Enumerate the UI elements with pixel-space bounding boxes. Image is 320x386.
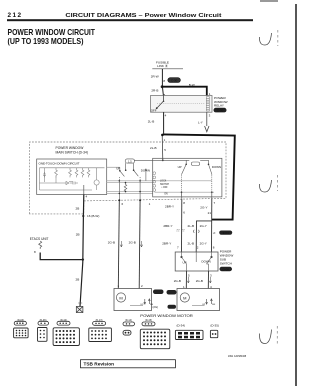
svg-text:2B: 2B [76,207,80,211]
svg-text:5: 5 [188,274,190,278]
svg-text:8: 8 [34,250,36,254]
svg-text:8: 8 [213,245,215,249]
svg-text:2: 2 [141,284,143,288]
svg-text:8: 8 [163,79,165,83]
svg-text:2G-B: 2G-B [196,279,203,283]
svg-text:7: 7 [214,201,216,205]
svg-text:RELAY: RELAY [214,104,224,108]
svg-text:1: 1 [164,138,166,142]
svg-text:(D-14): (D-14) [125,319,132,322]
svg-text:16 (B-W): 16 (B-W) [87,214,99,218]
svg-text:2R-B: 2R-B [151,88,158,92]
svg-text:2G-Y: 2G-Y [200,205,207,209]
svg-text:UP: UP [183,260,187,264]
svg-text:LINK Ⓡ: LINK Ⓡ [157,63,168,68]
svg-text:CIRCUIT DIAGRAMS – Power Windo: CIRCUIT DIAGRAMS – Power Window Circuit [65,13,221,19]
svg-text:(D-13): (D-13) [96,319,103,322]
svg-text:1: 1 [149,202,151,206]
svg-text:5: 5 [164,148,166,152]
svg-text:4: 4 [86,195,88,199]
svg-text:L-Y: L-Y [198,121,203,125]
svg-text:M: M [183,296,186,301]
svg-text:1991 CAPM0468: 1991 CAPM0468 [228,355,247,358]
svg-text:ON: ON [164,194,168,196]
svg-text:7: 7 [177,245,179,249]
svg-text:D-08: D-08 [223,267,230,271]
svg-text:POWER WINDOW: POWER WINDOW [56,146,85,150]
svg-text:2BR-Y: 2BR-Y [165,205,174,209]
svg-text:OFF: OFF [151,108,157,112]
svg-text:(D-03): (D-03) [17,319,24,322]
svg-text:6: 6 [183,211,185,215]
svg-text:2:: 2: [213,231,216,235]
svg-text:1: 1 [118,284,120,288]
svg-text:ETACS UNIT: ETACS UNIT [30,237,49,241]
svg-text:(2G): (2G) [153,305,159,309]
svg-text:MAIN SWITCH (D-34): MAIN SWITCH (D-34) [56,151,88,155]
svg-text:C-30: C-30 [171,79,178,83]
svg-text:2G-B: 2G-B [108,241,115,245]
svg-text:(UP TO 1993 MODELS): (UP TO 1993 MODELS) [8,36,84,46]
svg-text:(D-34): (D-34) [177,324,186,328]
svg-text:POWER WINDOW MOTOR: POWER WINDOW MOTOR [140,314,193,318]
svg-text:6: 6 [122,202,124,206]
svg-text:2L-B: 2L-B [188,224,195,228]
svg-text:2G-Y: 2G-Y [200,224,207,228]
svg-text:E-04: E-04 [223,231,229,235]
svg-text:(D-10): (D-10) [60,319,67,322]
svg-text:(D-35): (D-35) [210,324,219,328]
svg-text:3: 3 [210,274,212,278]
svg-text:8: 8 [183,201,185,205]
svg-text:(D-15): (D-15) [145,319,152,322]
svg-text:2L-B: 2L-B [150,146,157,150]
svg-text:3: 3 [209,114,211,118]
svg-text:(D-06): (D-06) [40,319,47,322]
svg-text:2G-B: 2G-B [174,279,181,283]
svg-text:2BR-Y: 2BR-Y [162,242,171,246]
svg-text:DOWN: DOWN [212,165,221,169]
svg-text:2: 2 [197,245,199,249]
svg-text:DOWN: DOWN [202,260,211,264]
svg-text:2L-B: 2L-B [148,120,155,124]
svg-text:C-30: C-30 [217,108,224,112]
svg-text:2BR-Y: 2BR-Y [163,224,172,228]
svg-text:21: 21 [208,211,212,215]
svg-text:LOCK: LOCK [160,181,167,183]
svg-text:DN: DN [212,304,216,306]
svg-text:2L-B: 2L-B [188,242,195,246]
svg-text:SWITCH: SWITCH [160,184,169,186]
svg-text:• OFF: • OFF [162,187,169,189]
svg-text:4: 4 [165,114,167,118]
svg-text:ONE-TOUCH DOWN CIRCUIT: ONE-TOUCH DOWN CIRCUIT [39,162,80,166]
svg-text:M: M [119,296,122,301]
svg-text:2B: 2B [76,233,80,237]
svg-text:2G-B: 2G-B [129,241,136,245]
svg-text:212: 212 [8,12,22,19]
svg-text:SWITCH: SWITCH [220,262,232,266]
svg-text:1.5: 1.5 [128,160,132,163]
svg-text:2B: 2B [76,278,80,282]
svg-text:2R-W: 2R-W [151,74,159,78]
svg-text:TSB Revision: TSB Revision [84,362,115,367]
svg-text:2G-Y: 2G-Y [200,242,207,246]
svg-text:B-W: B-W [189,83,195,87]
svg-text:UP: UP [178,165,182,169]
